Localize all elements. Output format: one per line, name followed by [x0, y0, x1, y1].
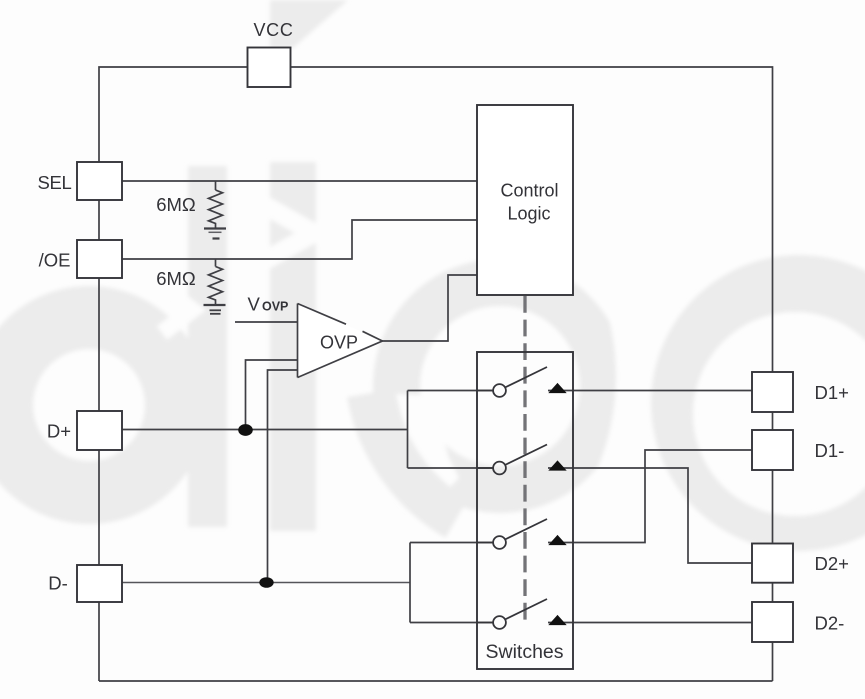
svg-text:D2-: D2- — [815, 613, 845, 634]
svg-text:SEL: SEL — [37, 172, 71, 193]
svg-text:OVP: OVP — [320, 333, 358, 353]
svg-text:V: V — [248, 294, 261, 315]
svg-text:6MΩ: 6MΩ — [156, 268, 196, 289]
svg-text:/OE: /OE — [39, 250, 71, 271]
svg-text:Control: Control — [500, 181, 558, 201]
svg-text:D+: D+ — [47, 421, 71, 442]
svg-text:OVP: OVP — [262, 300, 288, 314]
svg-text:D1-: D1- — [815, 440, 845, 461]
svg-text:6MΩ: 6MΩ — [156, 194, 196, 215]
svg-text:Logic: Logic — [507, 204, 550, 224]
svg-text:D2+: D2+ — [815, 553, 849, 574]
svg-text:VCC: VCC — [253, 20, 293, 40]
svg-text:D1+: D1+ — [815, 382, 849, 403]
svg-text:D-: D- — [48, 573, 68, 594]
svg-text:Switches: Switches — [485, 641, 563, 663]
